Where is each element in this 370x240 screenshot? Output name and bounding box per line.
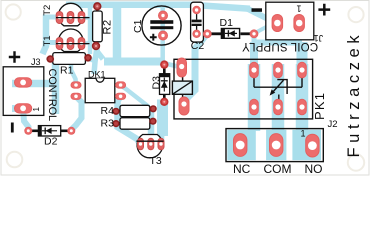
pad D1 right bbox=[250, 29, 259, 38]
wire T1 middle pad down to DK1 pin bbox=[71, 44, 76, 85]
pad T3 3 bbox=[158, 138, 165, 151]
wire D3 band narrow to T3 right pad bbox=[158, 134, 165, 144]
wire horizontal band to D3 bbox=[104, 58, 162, 66]
svg-text:J2: J2 bbox=[328, 119, 338, 130]
wire C2-D1 junction down to relay coil bottom pad bbox=[185, 36, 205, 100]
mounting hole top-right bbox=[348, 7, 363, 22]
wire R1 right pad stub bbox=[87, 59, 96, 61]
svg-text:DK1: DK1 bbox=[88, 70, 106, 80]
connector J1 outline bbox=[266, 2, 314, 40]
relay PK1 outline bbox=[174, 59, 313, 119]
pad relay coil bottom bbox=[179, 97, 190, 116]
wire rail diagonal to J1 pad1 bbox=[247, 9, 273, 22]
wire D1 right pad to J1 pad1 bbox=[255, 26, 268, 33]
pad R3 left bbox=[112, 120, 119, 127]
wire J3 pad1 horizontal band bbox=[12, 80, 52, 88]
transistor T3 chord line bbox=[136, 140, 163, 142]
svg-text:CONTROL: CONTROL bbox=[46, 69, 58, 121]
wire relay contact column 1 bbox=[248, 64, 261, 131]
wire D1 right pad down bbox=[252, 35, 257, 46]
wire J3 pad2 left stub bbox=[12, 105, 20, 112]
wire R1 left pad band down behind CONTROL bbox=[52, 59, 60, 114]
svg-text:D2: D2 bbox=[44, 136, 58, 148]
capacitor C1 plus mark bbox=[150, 34, 157, 41]
resistor R1 body bbox=[47, 53, 91, 65]
connector J3 outline bbox=[3, 67, 44, 116]
pad T2 3 bbox=[78, 11, 86, 24]
wire C1 vertical band through body bbox=[160, 3, 165, 64]
pad J2 pin1 NC bbox=[233, 133, 247, 157]
pad T1 1 bbox=[56, 37, 64, 50]
pad T2 2 bbox=[67, 11, 75, 24]
pad D2 left bbox=[24, 127, 32, 135]
pad relay contact bottom 1 bbox=[249, 99, 259, 116]
wire diagonal to relay coil top pad bbox=[161, 63, 182, 68]
svg-text:T3: T3 bbox=[150, 155, 162, 167]
wire left vertical rail bbox=[43, 15, 47, 55]
svg-text:C2: C2 bbox=[191, 40, 205, 52]
svg-text:C1: C1 bbox=[132, 19, 144, 33]
wire rail slope to J1 bbox=[195, 5, 250, 9]
wire J3 pad2 to D2 left pad bbox=[23, 109, 29, 130]
pad DK1 pin 2 bbox=[71, 93, 82, 100]
pad R3 right bbox=[149, 118, 156, 125]
wire vertical band x117 rail to horizontal band bbox=[113, 6, 122, 62]
svg-text:R2: R2 bbox=[102, 19, 114, 34]
transistor T1 chord line bbox=[56, 43, 90, 45]
pad relay contact top 2 bbox=[273, 62, 283, 79]
wire x302 down to relay contact bbox=[297, 42, 308, 70]
wire relay contact column 2 bbox=[272, 64, 285, 131]
wire DK1 bottom-right pad band to T3 left pad bbox=[118, 97, 141, 145]
svg-text:NO: NO bbox=[305, 162, 323, 176]
svg-text:R3: R3 bbox=[101, 118, 115, 130]
pad J2 pin2 COM bbox=[269, 133, 283, 157]
wire T1 right pad stub bbox=[82, 41, 90, 45]
svg-text:1: 1 bbox=[296, 3, 301, 13]
relay switch symbol bbox=[254, 75, 302, 101]
pad C1 top bbox=[158, 11, 168, 21]
svg-text:R1: R1 bbox=[60, 65, 74, 77]
pad DK1 pin 1 bbox=[71, 81, 82, 88]
wire T2 middle pad stub up bbox=[69, 3, 73, 16]
wire D3 bottom wide band to T3 right pad bbox=[157, 100, 168, 137]
wire relay contact column 3 bbox=[296, 64, 309, 131]
svg-text:1: 1 bbox=[31, 107, 41, 112]
wire T1 left pad stub bbox=[44, 40, 60, 45]
wire top supply rail bbox=[66, 2, 196, 9]
pad R1 right bbox=[84, 54, 92, 62]
node J2 copper block NC bbox=[227, 130, 256, 160]
wire R2 bottom pad down bbox=[94, 44, 103, 74]
node J2 copper block COM bbox=[266, 130, 286, 160]
pad relay contact top 1 bbox=[249, 62, 259, 79]
wire R4 right pad band to T3 middle pad bbox=[148, 109, 155, 142]
pad T1 3 bbox=[78, 37, 86, 50]
mounting hole top-left bbox=[6, 4, 21, 19]
svg-text:R4: R4 bbox=[101, 105, 115, 117]
pad relay contact top 3 bbox=[297, 62, 307, 79]
resistor R3 body bbox=[114, 118, 156, 130]
transistor T2 chord line bbox=[56, 17, 90, 19]
pad relay contact bottom 2 bbox=[273, 99, 283, 116]
capacitor C2 body bbox=[191, 2, 204, 42]
svg-text:T1: T1 bbox=[42, 35, 53, 46]
wire T2 left pad to left rail bbox=[46, 15, 60, 20]
node J2 copper block NO bbox=[292, 130, 321, 160]
pad J1 pin2 bbox=[293, 14, 305, 32]
wire T2 right pad stub bbox=[82, 16, 90, 20]
pad J2 pin3 NO bbox=[305, 134, 319, 158]
minus sign J1 bbox=[252, 8, 263, 12]
pad T3 1 bbox=[137, 138, 144, 151]
wire DK1 top-right pad diagonal bbox=[121, 86, 149, 108]
svg-text:NC: NC bbox=[233, 162, 251, 176]
mounting hole bottom-left bbox=[7, 152, 23, 168]
wire DK1 bottom-left pad to D2 right pad bbox=[72, 97, 82, 130]
wire C2 bottom pad to D1 left pad bbox=[199, 33, 206, 35]
transistor T2 body bbox=[59, 3, 84, 25]
capacitor C1 outline bbox=[142, 6, 181, 45]
pad R2 top bbox=[93, 2, 101, 10]
svg-text:Futrzaczek: Futrzaczek bbox=[345, 31, 363, 158]
diode D1 bbox=[208, 29, 254, 39]
pad R4 right bbox=[150, 105, 157, 112]
relay coil symbol bbox=[172, 75, 192, 100]
transistor T3 body bbox=[137, 135, 163, 158]
pad J1 pin1 bbox=[272, 14, 284, 32]
pad T1 2 bbox=[67, 37, 75, 50]
svg-text:PK1: PK1 bbox=[312, 92, 327, 120]
svg-text:D1: D1 bbox=[220, 17, 234, 29]
pad D2 right bbox=[67, 127, 75, 135]
minus sign J3 bbox=[11, 123, 14, 133]
pad R2 bottom bbox=[92, 42, 100, 50]
wire band under J1 bbox=[252, 40, 302, 46]
svg-text:D3: D3 bbox=[150, 76, 162, 90]
pad R4 left bbox=[112, 108, 119, 115]
board edge frame bbox=[1, 1, 369, 176]
svg-text:COIL SUPPLY: COIL SUPPLY bbox=[242, 40, 318, 52]
pad J3 pin2 bbox=[14, 103, 32, 113]
pad relay coil top bbox=[177, 58, 188, 78]
diode D3 bbox=[160, 66, 170, 100]
wire vertical x93 bbox=[88, 5, 93, 54]
pad C2 bottom bbox=[192, 30, 200, 38]
pad J3 pin1 bbox=[14, 77, 32, 87]
pad D3 bottom bbox=[160, 98, 168, 106]
wire J1 pad2 stub down bbox=[297, 26, 302, 41]
pad R1 left bbox=[47, 55, 55, 63]
resistor R2 body bbox=[93, 5, 103, 47]
wire x254 down to relay contact bbox=[250, 42, 258, 70]
transistor T1 body bbox=[59, 29, 84, 51]
pad relay contact bottom 3 bbox=[297, 99, 307, 116]
connector J2 outline bbox=[226, 129, 323, 162]
pad DK1 pin 4 bbox=[115, 93, 126, 100]
plus sign J3 bbox=[9, 51, 20, 62]
pad DK1 pin 3 bbox=[115, 81, 126, 88]
diode D2 bbox=[29, 126, 71, 136]
plus sign J1 bbox=[318, 4, 330, 16]
resistor R4 body bbox=[114, 105, 156, 116]
pad C1 bottom bbox=[158, 31, 168, 41]
svg-text:J3: J3 bbox=[31, 57, 41, 67]
svg-text:1: 1 bbox=[301, 129, 306, 139]
mounting hole bottom-right bbox=[348, 154, 364, 170]
svg-text:COM: COM bbox=[264, 162, 292, 176]
pads bbox=[14, 2, 320, 157]
pad D1 left bbox=[203, 29, 212, 38]
pad T2 1 bbox=[56, 11, 64, 24]
pad D3 top bbox=[160, 60, 168, 68]
wire J1 pad1 stub down bbox=[275, 28, 280, 41]
svg-text:T2: T2 bbox=[42, 5, 53, 16]
pad C2 top bbox=[192, 6, 200, 14]
pad T3 2 bbox=[147, 138, 154, 151]
IC DK1 body bbox=[85, 78, 115, 102]
